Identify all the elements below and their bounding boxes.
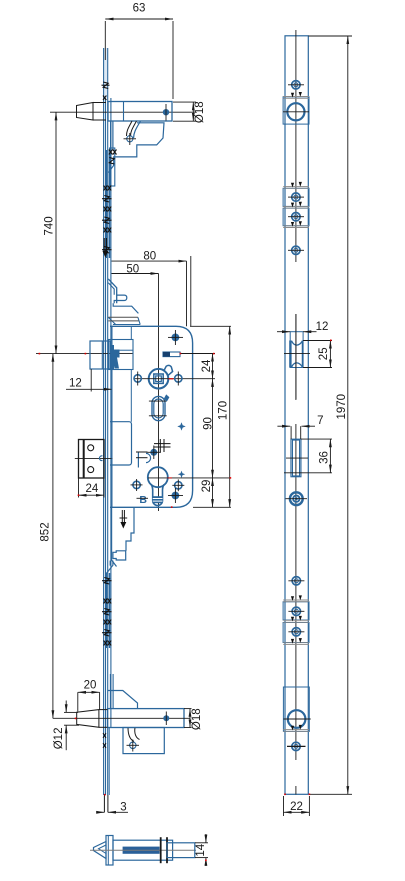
- svg-text:170: 170: [218, 401, 230, 420]
- svg-text:24: 24: [201, 359, 213, 372]
- svg-text:80: 80: [143, 251, 156, 263]
- svg-text:50: 50: [126, 263, 139, 275]
- svg-text:36: 36: [319, 451, 331, 464]
- svg-text:20: 20: [84, 680, 97, 692]
- svg-text:14: 14: [195, 843, 207, 856]
- svg-text:B: B: [139, 494, 147, 506]
- svg-text:852: 852: [40, 522, 52, 541]
- svg-text:12: 12: [69, 378, 82, 390]
- svg-text:12: 12: [316, 321, 329, 333]
- svg-text:Ø12: Ø12: [53, 728, 65, 750]
- svg-text:25: 25: [318, 347, 330, 360]
- svg-text:1970: 1970: [336, 394, 348, 420]
- svg-text:29: 29: [201, 480, 213, 493]
- svg-text:22: 22: [290, 801, 303, 813]
- svg-text:24: 24: [86, 483, 99, 495]
- svg-text:Ø18: Ø18: [191, 708, 203, 730]
- svg-text:3: 3: [120, 802, 126, 814]
- svg-text:63: 63: [133, 3, 146, 15]
- svg-text:90: 90: [203, 417, 215, 430]
- svg-text:7: 7: [317, 415, 323, 427]
- svg-text:740: 740: [44, 216, 56, 235]
